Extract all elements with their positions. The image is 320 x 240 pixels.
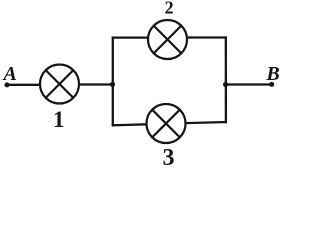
svg-text:1: 1: [53, 107, 65, 132]
svg-text:A: A: [2, 63, 17, 85]
svg-text:B: B: [265, 63, 279, 85]
svg-text:3: 3: [163, 145, 175, 168]
svg-text:2: 2: [165, 0, 174, 18]
